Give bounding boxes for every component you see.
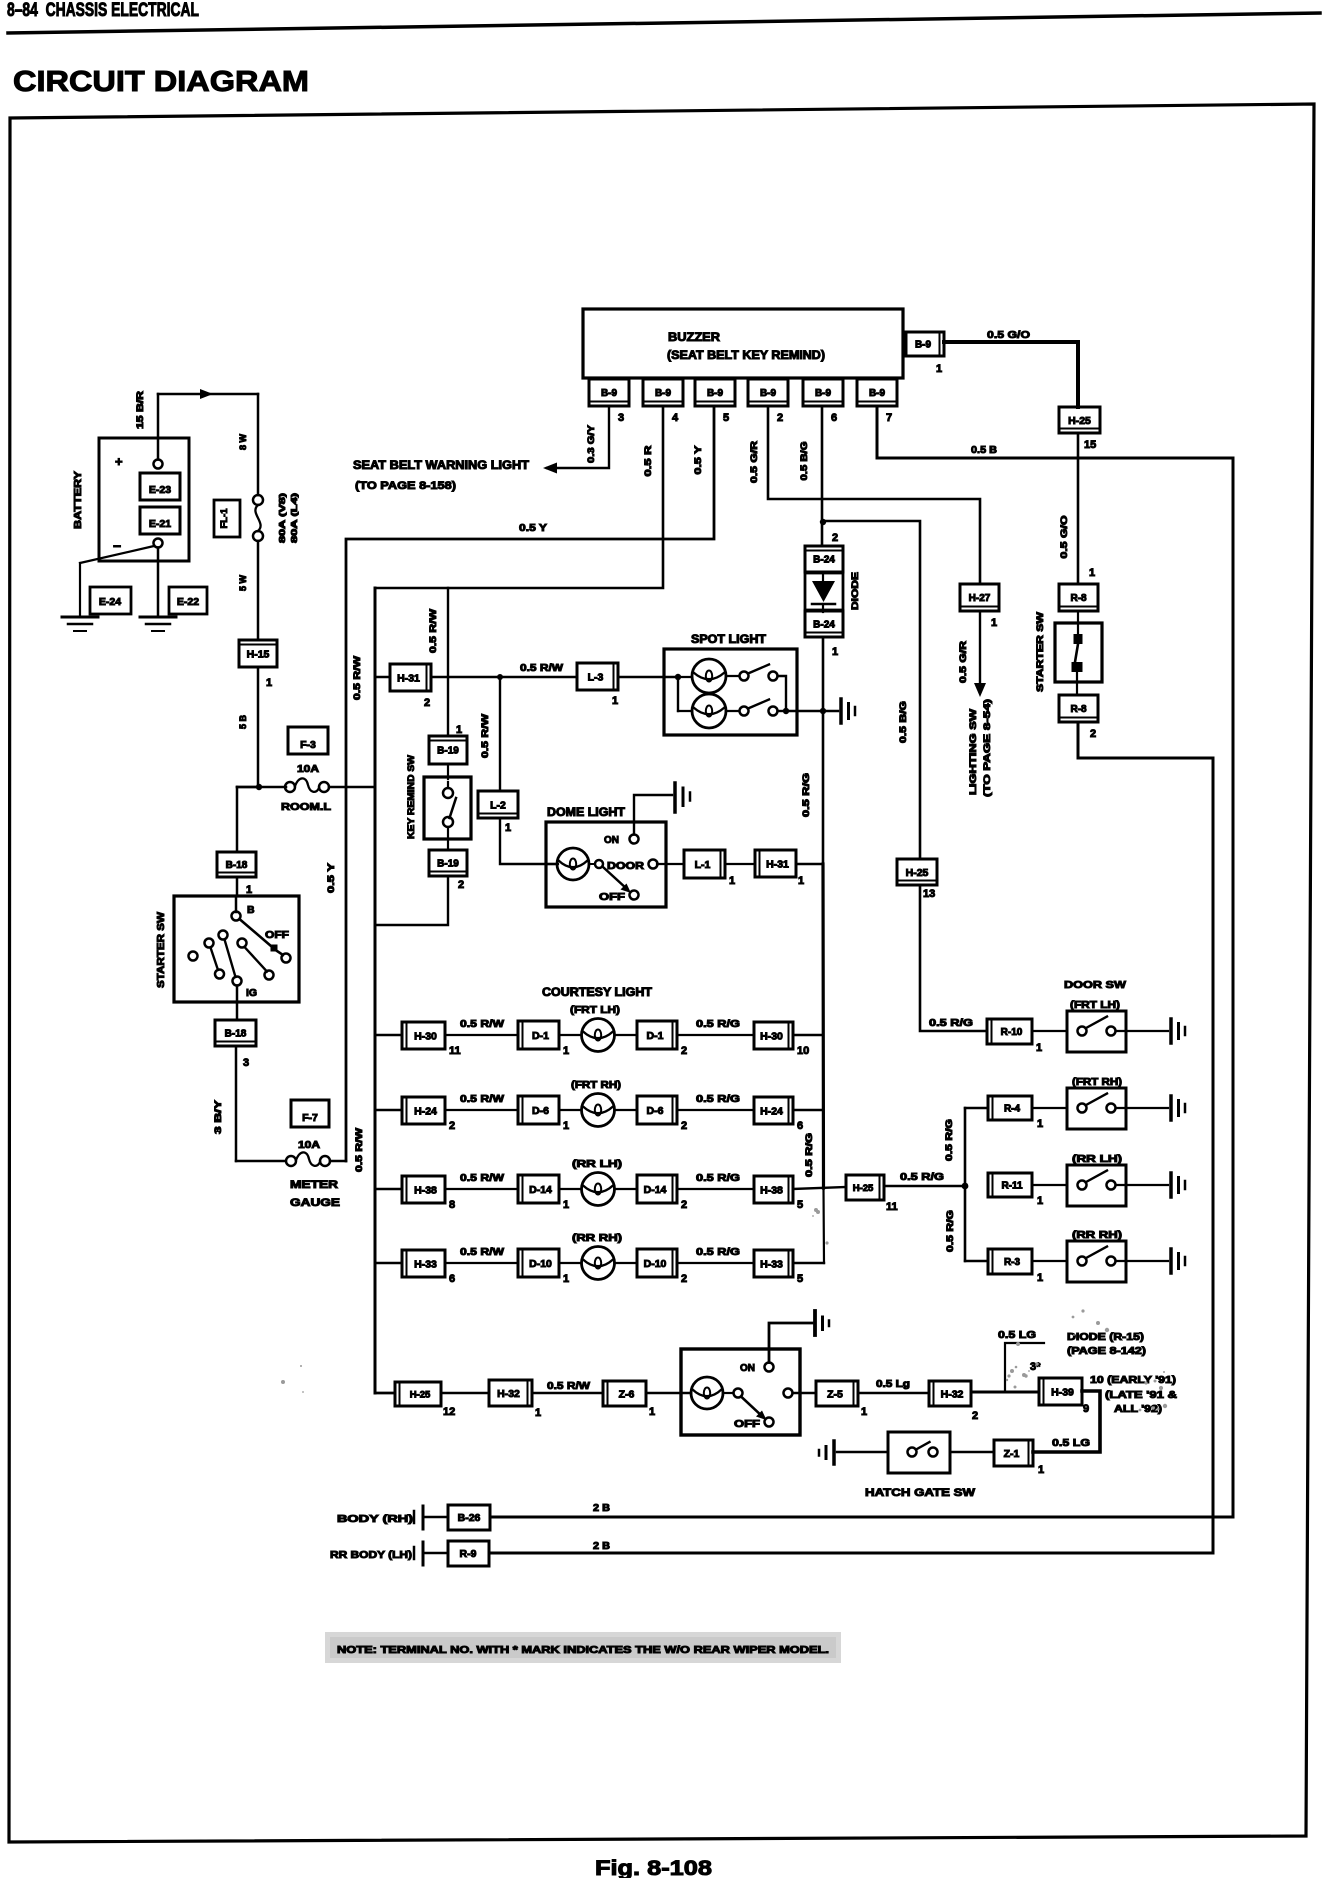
svg-text:0.5 Y: 0.5 Y: [693, 446, 703, 475]
svg-text:E-22: E-22: [177, 596, 199, 608]
svg-text:0.5 R/G: 0.5 R/G: [696, 1173, 740, 1184]
svg-text:0.5 R/G: 0.5 R/G: [696, 1094, 740, 1105]
svg-text:(RR LH): (RR LH): [572, 1159, 622, 1170]
svg-text:R-3: R-3: [1004, 1257, 1021, 1268]
svg-text:0.5 R/W: 0.5 R/W: [354, 1127, 364, 1172]
svg-text:5: 5: [797, 1199, 803, 1211]
svg-text:1: 1: [1089, 567, 1095, 579]
svg-text:1: 1: [861, 1406, 867, 1418]
svg-text:12: 12: [443, 1406, 455, 1418]
svg-text:R-8: R-8: [1070, 593, 1087, 604]
svg-text:1: 1: [1037, 1118, 1043, 1130]
svg-text:2: 2: [681, 1045, 687, 1057]
svg-text:1: 1: [936, 363, 942, 375]
svg-text:0.5 R/W: 0.5 R/W: [520, 663, 564, 674]
svg-text:+: +: [115, 454, 123, 469]
svg-text:D-14: D-14: [644, 1184, 667, 1196]
svg-text:D-10: D-10: [529, 1258, 552, 1270]
svg-text:2: 2: [424, 697, 430, 709]
svg-text:IG: IG: [246, 987, 257, 999]
svg-text:(TO PAGE 8-54): (TO PAGE 8-54): [982, 699, 993, 797]
svg-text:B-9: B-9: [869, 388, 886, 399]
svg-text:COURTESY LIGHT: COURTESY LIGHT: [542, 987, 652, 999]
svg-text:0.5 R/G: 0.5 R/G: [900, 1172, 944, 1183]
svg-text:0.3 G/Y: 0.3 G/Y: [586, 425, 596, 463]
svg-text:0.5 G/O: 0.5 G/O: [1059, 516, 1069, 559]
svg-text:0.5 B/G: 0.5 B/G: [799, 442, 809, 481]
svg-text:10A: 10A: [298, 1140, 320, 1151]
svg-text:1: 1: [246, 884, 252, 896]
svg-text:STARTER SW: STARTER SW: [1035, 612, 1046, 692]
svg-text:D-10: D-10: [644, 1258, 667, 1270]
svg-text:Fig. 8-108: Fig. 8-108: [595, 1857, 712, 1878]
svg-text:SEAT BELT WARNING LIGHT: SEAT BELT WARNING LIGHT: [353, 460, 529, 472]
svg-text:SPOT LIGHT: SPOT LIGHT: [691, 634, 766, 646]
svg-text:(PAGE 8-142): (PAGE 8-142): [1067, 1346, 1146, 1357]
svg-text:0.5 R/W: 0.5 R/W: [460, 1094, 505, 1105]
svg-text:0.5 B: 0.5 B: [971, 445, 997, 456]
svg-text:R-4: R-4: [1004, 1104, 1021, 1115]
svg-text:15 B/R: 15 B/R: [135, 390, 145, 429]
svg-text:−: −: [113, 538, 121, 554]
svg-text:2 B: 2 B: [593, 1541, 610, 1552]
svg-text:8 W: 8 W: [238, 434, 248, 451]
svg-text:0.5 G/R: 0.5 G/R: [958, 640, 968, 683]
svg-text:1: 1: [266, 677, 272, 689]
svg-text:3*: 3*: [1030, 1361, 1041, 1373]
svg-text:8–84 CHASSIS ELECTRICAL: 8–84 CHASSIS ELECTRICAL: [7, 0, 199, 21]
svg-text:(RR RH): (RR RH): [1072, 1230, 1122, 1241]
svg-text:H-27: H-27: [969, 593, 991, 604]
svg-text:H-38: H-38: [760, 1184, 783, 1196]
svg-text:4: 4: [672, 412, 679, 424]
svg-text:15: 15: [1084, 439, 1096, 451]
svg-text:2: 2: [681, 1199, 687, 1211]
svg-text:L-2: L-2: [490, 799, 506, 811]
svg-text:0.5 R/W: 0.5 R/W: [428, 608, 438, 653]
svg-text:0.5 R/G: 0.5 R/G: [945, 1210, 955, 1252]
svg-text:DOME LIGHT: DOME LIGHT: [547, 807, 625, 819]
svg-text:B-26: B-26: [458, 1512, 481, 1524]
svg-text:0.5 R/G: 0.5 R/G: [696, 1247, 740, 1258]
svg-text:3 B/Y: 3 B/Y: [213, 1100, 223, 1134]
svg-text:L-3: L-3: [588, 671, 604, 683]
svg-text:H-32: H-32: [941, 1388, 964, 1400]
svg-text:CIRCUIT DIAGRAM: CIRCUIT DIAGRAM: [13, 66, 309, 98]
svg-text:5 B: 5 B: [238, 715, 248, 730]
svg-text:H-32: H-32: [497, 1388, 520, 1400]
svg-text:B-9: B-9: [760, 388, 777, 399]
svg-text:BODY (RH): BODY (RH): [337, 1514, 413, 1525]
svg-text:R-10: R-10: [1001, 1027, 1023, 1038]
svg-text:BATTERY: BATTERY: [72, 471, 84, 529]
svg-text:80A (L4): 80A (L4): [289, 493, 299, 543]
svg-text:Z-5: Z-5: [827, 1388, 843, 1400]
svg-text:10: 10: [797, 1045, 809, 1057]
svg-text:0.5 R/G: 0.5 R/G: [696, 1019, 740, 1030]
svg-text:B-9: B-9: [915, 340, 932, 351]
svg-text:B-9: B-9: [601, 388, 618, 399]
svg-text:80A (V8): 80A (V8): [277, 493, 287, 543]
svg-text:3: 3: [243, 1057, 249, 1069]
svg-text:F-7: F-7: [302, 1112, 318, 1124]
svg-text:H-30: H-30: [414, 1030, 437, 1042]
svg-text:H-25: H-25: [853, 1183, 874, 1194]
svg-text:H-24: H-24: [760, 1105, 783, 1117]
svg-text:1: 1: [729, 875, 735, 887]
svg-text:11: 11: [449, 1045, 461, 1057]
svg-text:H-31: H-31: [766, 858, 789, 870]
svg-text:H-25: H-25: [1068, 415, 1091, 427]
svg-text:B-18: B-18: [226, 860, 248, 871]
svg-text:0.5 R/W: 0.5 R/W: [460, 1173, 505, 1184]
svg-text:(FRT RH): (FRT RH): [571, 1080, 621, 1091]
svg-text:LIGHTING SW: LIGHTING SW: [968, 709, 979, 795]
svg-text:R-8: R-8: [1070, 704, 1087, 715]
svg-text:R-11: R-11: [1001, 1181, 1023, 1192]
svg-text:ALL '92): ALL '92): [1114, 1404, 1162, 1415]
svg-text:B: B: [247, 904, 255, 916]
svg-text:5: 5: [723, 412, 729, 424]
svg-text:0.5 LG: 0.5 LG: [1052, 1437, 1090, 1449]
svg-text:0.5 LG: 0.5 LG: [998, 1329, 1036, 1341]
svg-text:H-25: H-25: [410, 1389, 431, 1400]
svg-text:GAUGE: GAUGE: [290, 1197, 340, 1209]
svg-text:1: 1: [563, 1273, 569, 1285]
svg-text:HATCH GATE SW: HATCH GATE SW: [865, 1487, 976, 1499]
svg-text:1: 1: [535, 1407, 541, 1419]
svg-text:OFF: OFF: [734, 1419, 760, 1430]
svg-text:5: 5: [797, 1273, 803, 1285]
svg-text:NOTE: TERMINAL NO. WITH * MARK: NOTE: TERMINAL NO. WITH * MARK INDICATES…: [337, 1644, 829, 1656]
svg-text:FL-1: FL-1: [219, 508, 230, 529]
svg-text:RR BODY (LH): RR BODY (LH): [330, 1550, 412, 1561]
svg-text:3: 3: [618, 412, 624, 424]
svg-text:0.5 R/G: 0.5 R/G: [801, 773, 811, 817]
svg-text:Z-6: Z-6: [619, 1388, 635, 1400]
svg-text:Z-1: Z-1: [1004, 1448, 1020, 1460]
svg-text:1: 1: [563, 1120, 569, 1132]
svg-text:(FRT LH): (FRT LH): [570, 1005, 620, 1016]
svg-text:13: 13: [923, 888, 935, 900]
svg-text:1: 1: [1038, 1464, 1044, 1476]
svg-text:0.5 R/G: 0.5 R/G: [944, 1119, 954, 1161]
svg-text:(RR RH): (RR RH): [572, 1233, 622, 1244]
svg-text:2: 2: [832, 532, 838, 544]
svg-text:B-9: B-9: [815, 388, 832, 399]
svg-text:0.5 R/W: 0.5 R/W: [480, 713, 490, 758]
svg-text:B-19: B-19: [437, 746, 459, 757]
svg-text:H-31: H-31: [397, 672, 420, 684]
svg-text:OFF: OFF: [599, 892, 625, 903]
svg-text:(LATE '91 &: (LATE '91 &: [1105, 1390, 1177, 1401]
svg-text:ON: ON: [740, 1363, 755, 1374]
svg-text:ROOM.L: ROOM.L: [281, 802, 331, 813]
svg-text:0.5 R/W: 0.5 R/W: [460, 1019, 505, 1030]
svg-text:BUZZER: BUZZER: [668, 330, 720, 344]
svg-text:B-19: B-19: [437, 859, 459, 870]
svg-text:9: 9: [1083, 1403, 1089, 1415]
svg-text:1: 1: [798, 875, 804, 887]
svg-text:1: 1: [1036, 1042, 1042, 1054]
svg-text:0.5 Lg: 0.5 Lg: [876, 1379, 910, 1390]
svg-text:2: 2: [681, 1120, 687, 1132]
svg-text:(FRT LH): (FRT LH): [1070, 1000, 1120, 1011]
svg-text:1: 1: [649, 1406, 655, 1418]
svg-text:1: 1: [563, 1199, 569, 1211]
svg-text:D-1: D-1: [647, 1030, 664, 1042]
svg-text:2: 2: [1090, 728, 1096, 740]
svg-text:R-9: R-9: [460, 1548, 477, 1560]
svg-text:2: 2: [972, 1410, 978, 1422]
svg-text:DOOR SW: DOOR SW: [1064, 979, 1126, 991]
svg-text:10 (EARLY '91): 10 (EARLY '91): [1090, 1375, 1176, 1386]
svg-text:0.5 R/W: 0.5 R/W: [547, 1381, 591, 1392]
svg-text:H-25: H-25: [906, 867, 929, 879]
svg-text:H-24: H-24: [414, 1105, 437, 1117]
svg-text:5 W: 5 W: [238, 575, 248, 592]
svg-text:L-1: L-1: [695, 859, 711, 871]
svg-text:(FRT RH): (FRT RH): [1072, 1077, 1122, 1088]
svg-text:H-30: H-30: [760, 1030, 783, 1042]
svg-text:D-14: D-14: [529, 1184, 552, 1196]
svg-text:2: 2: [681, 1273, 687, 1285]
svg-text:B-9: B-9: [655, 388, 672, 399]
svg-text:2: 2: [458, 879, 464, 891]
svg-text:(TO PAGE 8-158): (TO PAGE 8-158): [355, 480, 456, 492]
svg-text:7: 7: [886, 412, 892, 424]
svg-text:B-18: B-18: [225, 1029, 247, 1040]
svg-text:DIODE: DIODE: [850, 572, 861, 610]
svg-text:(SEAT BELT KEY REMIND): (SEAT BELT KEY REMIND): [667, 350, 825, 362]
svg-text:DOOR: DOOR: [607, 861, 645, 872]
svg-text:8: 8: [449, 1199, 455, 1211]
svg-text:0.5 R/W: 0.5 R/W: [352, 655, 362, 700]
svg-text:6: 6: [831, 412, 837, 424]
svg-text:1: 1: [612, 695, 618, 707]
svg-text:0.5 G/R: 0.5 G/R: [749, 440, 759, 483]
svg-text:B-9: B-9: [707, 388, 724, 399]
svg-text:D-6: D-6: [532, 1105, 549, 1117]
svg-text:1: 1: [991, 617, 997, 629]
svg-text:0.5 B/G: 0.5 B/G: [898, 701, 908, 743]
svg-text:D-1: D-1: [532, 1030, 549, 1042]
svg-text:D-6: D-6: [647, 1105, 664, 1117]
svg-text:METER: METER: [290, 1179, 338, 1191]
svg-text:2 B: 2 B: [593, 1503, 610, 1514]
svg-text:(RR LH): (RR LH): [1072, 1154, 1122, 1165]
svg-text:0.5 R: 0.5 R: [643, 445, 653, 477]
svg-text:10A: 10A: [297, 764, 319, 775]
svg-text:1: 1: [563, 1045, 569, 1057]
svg-text:OFF: OFF: [265, 929, 290, 941]
svg-text:E-24: E-24: [99, 596, 121, 608]
svg-text:0.5 G/O: 0.5 G/O: [987, 329, 1030, 341]
svg-text:1: 1: [1037, 1195, 1043, 1207]
svg-text:0.5 R/G: 0.5 R/G: [804, 1133, 814, 1177]
svg-text:F-3: F-3: [300, 739, 316, 751]
svg-text:1: 1: [1037, 1272, 1043, 1284]
svg-text:0.5 R/W: 0.5 R/W: [460, 1247, 505, 1258]
svg-text:1: 1: [505, 822, 511, 834]
svg-text:H-39: H-39: [1051, 1386, 1074, 1398]
svg-text:1: 1: [832, 646, 838, 658]
svg-text:0.5 R/G: 0.5 R/G: [929, 1018, 973, 1029]
svg-text:ON: ON: [604, 835, 619, 846]
svg-text:0.5 Y: 0.5 Y: [326, 863, 336, 893]
svg-text:KEY REMIND SW: KEY REMIND SW: [406, 755, 417, 839]
svg-text:H-15: H-15: [247, 648, 270, 660]
svg-text:11: 11: [886, 1201, 898, 1213]
svg-text:DIODE (R-15): DIODE (R-15): [1067, 1332, 1144, 1343]
svg-text:STARTER SW: STARTER SW: [156, 911, 167, 988]
svg-text:B-24: B-24: [813, 555, 835, 566]
svg-text:2: 2: [449, 1120, 455, 1132]
svg-text:2: 2: [777, 412, 783, 424]
svg-text:6: 6: [449, 1273, 455, 1285]
svg-text:H-38: H-38: [414, 1184, 437, 1196]
svg-text:B-24: B-24: [813, 620, 835, 631]
svg-text:E-23: E-23: [149, 484, 171, 496]
svg-text:6: 6: [797, 1120, 803, 1132]
svg-text:H-33: H-33: [760, 1258, 783, 1270]
svg-text:E-21: E-21: [149, 518, 171, 530]
svg-text:H-33: H-33: [414, 1258, 437, 1270]
svg-text:0.5 Y: 0.5 Y: [519, 523, 547, 534]
svg-text:1: 1: [456, 724, 462, 736]
